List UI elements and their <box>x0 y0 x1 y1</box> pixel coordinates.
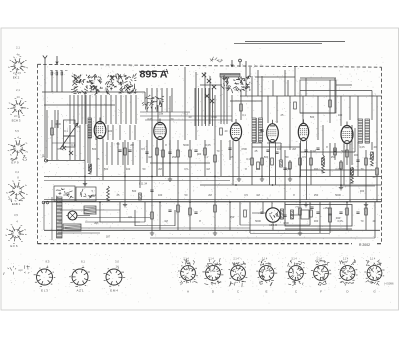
resistor <box>189 150 192 157</box>
resistor <box>294 102 297 109</box>
svg-text:5000: 5000 <box>335 193 341 197</box>
wire <box>351 125 353 165</box>
svg-text:300: 300 <box>314 219 319 223</box>
wire <box>245 41 345 43</box>
wire <box>201 88 203 126</box>
resistor <box>334 148 337 155</box>
wire <box>51 120 53 160</box>
wire <box>129 125 131 140</box>
tube V6 EL3 <box>341 126 353 144</box>
junction dots <box>84 162 348 203</box>
resistor zigzag <box>322 155 325 173</box>
pin scribble <box>292 268 303 278</box>
resistor <box>51 128 54 135</box>
svg-text:2M: 2M <box>292 147 296 151</box>
pin notes <box>183 259 195 267</box>
svg-text:250: 250 <box>230 215 235 219</box>
wire <box>177 140 179 230</box>
wire <box>209 76 211 124</box>
svg-text:4700: 4700 <box>55 122 61 126</box>
ground <box>304 202 308 207</box>
wire <box>60 209 120 211</box>
wire <box>365 202 367 230</box>
wire <box>146 88 148 112</box>
wire <box>184 67 186 140</box>
trimmer box <box>64 120 76 136</box>
wire <box>115 95 117 124</box>
wire <box>150 237 375 239</box>
wire <box>240 95 382 97</box>
svg-text:0,05: 0,05 <box>205 143 211 147</box>
wire <box>189 202 191 230</box>
wire <box>305 78 307 96</box>
svg-text:2,1 4: 2,1 4 <box>183 258 189 261</box>
pin scribble <box>233 268 243 279</box>
wire <box>300 77 336 79</box>
svg-text:0,1: 0,1 <box>242 113 246 117</box>
wire <box>329 202 331 233</box>
wire <box>238 141 240 177</box>
wire <box>150 162 210 164</box>
wire <box>56 70 58 92</box>
resistor <box>204 148 207 155</box>
wire <box>134 125 136 140</box>
wire <box>100 95 102 124</box>
wire <box>65 227 250 229</box>
switch contact <box>74 77 78 81</box>
wire <box>166 88 168 112</box>
svg-text:5000: 5000 <box>341 149 347 153</box>
trimmer box 2 <box>64 136 76 147</box>
wire <box>317 96 319 140</box>
wire <box>272 120 274 124</box>
svg-text:2,1 4: 2,1 4 <box>208 258 214 261</box>
wire <box>169 140 171 176</box>
tube V1 EK2 <box>94 122 106 139</box>
switch contact <box>207 79 211 83</box>
earth arrow <box>56 56 58 64</box>
wire <box>214 95 216 176</box>
wire <box>340 160 342 185</box>
svg-text:250: 250 <box>314 193 319 197</box>
wire <box>336 84 352 86</box>
wire <box>69 95 71 124</box>
wire <box>169 96 171 176</box>
pinout symbol ECH3 <box>8 98 29 117</box>
resistor <box>291 210 294 219</box>
pinout symbol EF9 <box>8 138 28 158</box>
ground <box>237 177 241 182</box>
tube base G <box>364 264 384 282</box>
pinout symbol EF6 <box>5 225 26 244</box>
resistor <box>329 100 332 107</box>
bus heater <box>44 229 380 231</box>
mains terminal <box>42 201 45 204</box>
resistor <box>322 158 325 165</box>
IF transformer T1b <box>259 118 263 142</box>
svg-text:2,2 4,5: 2,2 4,5 <box>13 71 21 75</box>
wire <box>300 90 372 92</box>
wire <box>119 202 121 222</box>
bus HT2 <box>44 199 382 201</box>
capacitor <box>310 207 313 208</box>
wire <box>284 202 286 210</box>
svg-text:1M: 1M <box>206 167 210 171</box>
svg-text:500: 500 <box>92 147 97 151</box>
tap box <box>63 224 81 231</box>
wire <box>212 88 214 126</box>
wire <box>275 142 277 185</box>
wire <box>303 119 305 123</box>
ground <box>298 231 302 236</box>
selector scribble <box>80 189 94 199</box>
bus HT <box>44 201 382 203</box>
svg-text:2,1 4: 2,1 4 <box>370 258 376 261</box>
wire <box>139 140 141 188</box>
wire <box>349 143 351 202</box>
svg-text:3,5: 3,5 <box>14 213 18 217</box>
wire <box>205 88 207 126</box>
pin notes <box>232 261 245 266</box>
wire <box>249 202 251 233</box>
svg-text:A: A <box>187 290 189 294</box>
wire <box>159 119 161 123</box>
capacitor <box>333 150 336 151</box>
wire <box>232 141 234 186</box>
capacitor <box>168 210 171 211</box>
wire <box>272 80 274 96</box>
wire <box>252 212 266 214</box>
wire <box>239 202 241 225</box>
wire <box>105 95 107 124</box>
coil left of V1 <box>88 118 92 138</box>
input mark <box>245 61 247 67</box>
wire <box>290 214 301 216</box>
capacitor <box>266 150 269 151</box>
svg-text:100: 100 <box>277 147 282 151</box>
wire <box>251 143 253 185</box>
wire <box>252 142 262 144</box>
resistor <box>251 158 254 165</box>
pinout symbol EAB1 <box>6 180 28 201</box>
wire <box>262 202 264 212</box>
osc switch scribble <box>222 75 251 93</box>
ground <box>339 185 343 190</box>
wire <box>343 143 345 185</box>
tube base A <box>178 264 198 282</box>
capacitor <box>168 152 171 153</box>
wire <box>130 95 132 124</box>
resistor <box>310 158 313 165</box>
resistor <box>139 193 142 200</box>
bus AVC <box>44 176 382 178</box>
resistor <box>151 212 154 219</box>
wire <box>100 221 145 223</box>
capacitor <box>275 152 278 153</box>
tube V5 EF6 <box>298 123 308 140</box>
wire <box>117 142 119 165</box>
mains transformer winding <box>57 197 63 238</box>
wire <box>235 119 237 123</box>
wire <box>89 95 91 124</box>
wire <box>371 91 373 121</box>
output section box <box>285 205 352 230</box>
svg-text:0,05: 0,05 <box>335 167 341 171</box>
wire <box>125 95 127 124</box>
wire <box>204 140 206 176</box>
terminal strip <box>50 71 68 76</box>
capacitor <box>283 168 286 169</box>
svg-text:ECH 3: ECH 3 <box>12 118 21 122</box>
wire <box>145 119 232 121</box>
wire <box>271 202 273 208</box>
tube base D <box>202 264 223 282</box>
wire <box>61 70 63 92</box>
svg-text:4700: 4700 <box>241 147 247 151</box>
resistor <box>89 164 92 171</box>
wire <box>294 67 296 96</box>
wire <box>349 96 351 120</box>
svg-text:2,1 4: 2,1 4 <box>262 258 268 261</box>
wire <box>208 88 210 126</box>
tube V3 EF9 <box>230 123 241 141</box>
wire <box>357 142 359 176</box>
resistor zigzag <box>107 186 110 201</box>
tube base F <box>311 265 331 283</box>
resistor <box>162 150 165 157</box>
trimmer arrow <box>60 123 78 149</box>
wire <box>195 72 197 140</box>
wire <box>124 140 126 202</box>
resistor <box>280 160 283 167</box>
capacitor <box>194 212 197 213</box>
resistor zigzag <box>371 152 374 166</box>
svg-text:2M: 2M <box>208 193 212 197</box>
ground <box>123 202 127 207</box>
wire <box>329 80 331 123</box>
resistor <box>346 150 349 157</box>
wire <box>240 90 242 120</box>
wire <box>322 125 324 155</box>
wire <box>151 88 153 112</box>
resistor <box>240 104 243 111</box>
output transformer b <box>365 119 370 143</box>
wire <box>140 115 232 117</box>
svg-text:100: 100 <box>338 113 343 117</box>
wire <box>162 140 164 177</box>
wire <box>43 202 45 230</box>
pin notes <box>340 260 356 265</box>
wire <box>189 140 191 202</box>
capacitor <box>194 150 197 151</box>
svg-text:100: 100 <box>158 193 163 197</box>
ground <box>150 231 154 236</box>
svg-text:4a: 4a <box>16 53 20 57</box>
selector scribble <box>56 188 74 199</box>
wire <box>226 77 228 124</box>
wire <box>135 95 137 124</box>
resistor <box>257 162 260 169</box>
svg-text:0,1: 0,1 <box>204 155 208 159</box>
pin notes <box>318 281 327 286</box>
svg-text:E M 4: E M 4 <box>110 289 118 293</box>
pin notes <box>180 280 198 286</box>
tube base D <box>338 264 357 282</box>
capacitor <box>356 212 359 213</box>
wire <box>78 217 151 219</box>
resistor zigzag <box>89 164 92 174</box>
wire <box>214 176 216 230</box>
svg-text:2,1: 2,1 <box>16 46 20 50</box>
wire <box>57 110 59 128</box>
svg-text:R40: R40 <box>336 217 341 220</box>
wire <box>284 70 286 96</box>
wire <box>135 225 175 227</box>
wire <box>144 92 146 105</box>
pin notes <box>316 260 330 266</box>
svg-text:0,05: 0,05 <box>359 145 365 149</box>
component box <box>301 210 309 219</box>
wire <box>346 202 348 230</box>
voltage selector box 2 <box>76 187 96 201</box>
svg-text:E F 6: E F 6 <box>10 244 18 248</box>
wire <box>289 96 291 150</box>
svg-text:x0 1x: x0 1x <box>14 114 21 118</box>
wire <box>287 80 289 96</box>
wire <box>300 112 335 114</box>
wire <box>267 96 269 123</box>
wire <box>85 221 140 223</box>
svg-text:1M: 1M <box>164 219 168 223</box>
wire <box>112 125 114 140</box>
wire <box>81 95 83 124</box>
pin scribble <box>207 267 218 279</box>
wire <box>299 143 301 230</box>
svg-text:500: 500 <box>132 189 137 193</box>
antenna symbol <box>43 56 47 65</box>
svg-text:0,05: 0,05 <box>147 117 153 121</box>
wire <box>119 125 121 140</box>
pin notes <box>340 281 354 285</box>
svg-text:500: 500 <box>310 115 315 119</box>
resistor <box>177 150 180 157</box>
svg-text:187: 187 <box>106 235 111 239</box>
wire <box>122 142 124 165</box>
wire <box>245 67 247 96</box>
svg-text:300: 300 <box>354 153 359 157</box>
wire <box>46 110 48 158</box>
svg-text:5,5: 5,5 <box>15 129 19 133</box>
wire <box>252 146 300 148</box>
wire <box>140 111 190 113</box>
voltage selector box <box>54 186 75 201</box>
capacitor <box>150 190 153 191</box>
wire <box>120 95 122 124</box>
wire <box>89 125 91 163</box>
bus 2 <box>44 180 230 182</box>
tube base E <box>256 264 277 282</box>
pin notes <box>366 280 380 286</box>
resistor <box>124 148 127 155</box>
switch contact <box>93 86 97 90</box>
svg-text:2M: 2M <box>94 221 98 225</box>
wire <box>84 92 86 186</box>
wire <box>87 125 89 163</box>
wire <box>132 142 134 165</box>
wire <box>85 95 87 124</box>
wire <box>240 224 310 226</box>
resistor <box>299 208 302 215</box>
wire <box>261 143 263 176</box>
wire <box>310 150 312 185</box>
svg-text:300: 300 <box>360 189 365 193</box>
svg-text:10a: 10a <box>159 113 164 116</box>
input mark <box>231 60 233 67</box>
wire <box>272 222 274 230</box>
svg-text:7,5: 7,5 <box>295 206 299 209</box>
wire <box>157 105 159 122</box>
tube base C <box>229 264 248 282</box>
svg-text:1M: 1M <box>256 193 260 197</box>
capacitor <box>228 148 231 149</box>
svg-text:4700: 4700 <box>283 221 289 225</box>
wire <box>329 143 331 176</box>
wire <box>289 160 291 176</box>
pin scribble <box>184 268 193 279</box>
capacitor <box>260 212 263 213</box>
wire <box>44 64 46 160</box>
pinout symbol EK2 <box>8 57 28 76</box>
wire <box>267 142 281 144</box>
capacitor <box>118 150 121 151</box>
resistor <box>189 208 192 215</box>
wire <box>220 77 222 124</box>
svg-text:0,1: 0,1 <box>71 143 75 147</box>
wire <box>111 142 113 165</box>
switch contact <box>202 73 206 77</box>
wire <box>74 125 76 160</box>
wire <box>102 139 104 181</box>
IF can box <box>300 80 336 113</box>
svg-text:14: 14 <box>16 95 20 99</box>
capacitor <box>145 152 148 153</box>
svg-text:3,4: 3,4 <box>15 170 19 174</box>
ground <box>288 177 292 182</box>
wire <box>54 110 56 128</box>
magic eye EM4 <box>68 211 77 220</box>
wire <box>156 88 158 112</box>
wire <box>99 118 101 122</box>
wire <box>256 118 258 142</box>
svg-text:250: 250 <box>256 167 261 171</box>
svg-text:3,0: 3,0 <box>115 260 119 264</box>
capacitor <box>316 212 319 213</box>
tube base E M 4 <box>104 268 126 286</box>
svg-text:E F 9: E F 9 <box>11 161 19 165</box>
ground <box>213 231 217 236</box>
svg-text:8,1: 8,1 <box>81 260 85 264</box>
wire <box>354 128 356 152</box>
wire <box>269 142 271 185</box>
wire <box>302 96 304 123</box>
svg-text:2,1 4: 2,1 4 <box>233 258 239 261</box>
resistor <box>244 210 247 217</box>
svg-text:A Z 1: A Z 1 <box>76 289 83 293</box>
switch contact <box>62 146 66 150</box>
svg-text:F: F <box>320 290 322 294</box>
title 895 A <box>139 69 168 81</box>
pin notes <box>366 260 382 266</box>
